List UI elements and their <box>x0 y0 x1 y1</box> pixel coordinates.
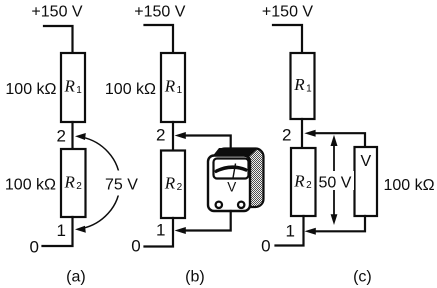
wire supply to R1 (a) <box>44 26 73 53</box>
svg-text:1: 1 <box>177 85 183 96</box>
arrow to node 1 (a) <box>75 226 86 233</box>
wire node 2 between R1 and R2 (a) <box>71 122 73 149</box>
svg-text:2: 2 <box>282 125 291 144</box>
voltmeter V rectangle (c) <box>355 147 378 216</box>
svg-text:R: R <box>293 75 305 94</box>
50 V dimension down arrowhead (c) <box>331 214 338 225</box>
voltmeter terminal right (b) <box>238 202 244 208</box>
svg-text:1: 1 <box>286 222 295 241</box>
label 75 V (a) <box>102 171 143 196</box>
arrow to node 1 (b) <box>175 227 186 234</box>
svg-text:1: 1 <box>76 85 82 96</box>
voltmeter terminal left (b) <box>216 202 222 208</box>
voltmeter scale ticks (b) <box>216 166 246 173</box>
svg-text:R: R <box>164 173 176 192</box>
svg-text:50 V: 50 V <box>319 175 352 192</box>
arrow to node 2 (a) <box>75 133 86 140</box>
resistor R2 (b) <box>161 151 185 219</box>
resistor R1 (b) <box>161 53 185 122</box>
voltmeter display window (b) <box>214 159 249 179</box>
wire R2 to 0 terminal (a) <box>43 217 73 246</box>
arrow to node 2 (c) <box>304 130 315 137</box>
svg-text:+150 V: +150 V <box>134 4 185 21</box>
svg-text:R: R <box>293 171 305 190</box>
wire R2 to 0 terminal (b) <box>145 218 174 247</box>
svg-text:R: R <box>64 172 76 191</box>
svg-text:V: V <box>227 179 236 194</box>
resistor R2 (c) <box>291 148 316 216</box>
svg-text:R: R <box>64 76 76 95</box>
svg-text:100 kΩ: 100 kΩ <box>5 81 56 98</box>
voltmeter needle (b) <box>233 164 235 178</box>
wire voltmeter to node 1 (c) <box>316 216 365 231</box>
svg-text:2: 2 <box>156 126 165 145</box>
label 50 V (c) <box>315 171 354 190</box>
svg-text:(a): (a) <box>66 268 86 285</box>
svg-text:0: 0 <box>29 238 38 257</box>
50 V dimension line (c) <box>333 143 335 216</box>
arrow to node 2 (b) <box>175 132 186 139</box>
svg-text:(b): (b) <box>185 268 205 285</box>
wire supply to R1 (b) <box>145 25 174 53</box>
svg-text:2: 2 <box>57 126 66 145</box>
50 V dimension up arrowhead (c) <box>331 135 338 146</box>
svg-text:2: 2 <box>177 182 183 193</box>
wire node 2 to voltmeter plus lead (b) <box>186 136 231 153</box>
svg-text:1: 1 <box>306 84 312 95</box>
svg-text:75 V: 75 V <box>105 177 138 194</box>
svg-text:V: V <box>360 153 371 170</box>
wire R2 to 0 terminal (c) <box>276 216 304 246</box>
voltmeter M1 rear case (b) <box>217 149 264 208</box>
svg-text:0: 0 <box>131 237 140 256</box>
svg-text:100 kΩ: 100 kΩ <box>384 177 435 194</box>
svg-text:1: 1 <box>57 221 66 240</box>
wire supply to R1 (c) <box>273 25 302 53</box>
voltmeter scale arc (b) <box>216 167 246 171</box>
wire node 2 between R1 and R2 (b) <box>172 122 174 151</box>
wire node 2 to voltmeter V (c) <box>315 133 365 147</box>
voltmeter M1 top edge shading (b) <box>212 148 259 158</box>
svg-text:(c): (c) <box>353 268 372 285</box>
wire voltmeter minus lead to node 1 (b) <box>186 211 231 231</box>
svg-text:1: 1 <box>156 221 165 240</box>
voltmeter M1 front face (b) <box>208 156 250 212</box>
svg-text:2: 2 <box>306 180 312 191</box>
arrow to node 1 (c) <box>305 228 316 235</box>
svg-text:2: 2 <box>76 181 82 192</box>
resistor R2 (a) <box>61 149 86 217</box>
75 V measurement arc (a) <box>82 137 120 228</box>
svg-text:+150 V: +150 V <box>31 4 82 21</box>
wire node 2 between R1 and R2 (c) <box>301 119 303 148</box>
svg-text:R: R <box>164 76 176 95</box>
resistor R1 (a) <box>61 53 85 122</box>
svg-text:+150 V: +150 V <box>262 4 313 21</box>
svg-text:100 kΩ: 100 kΩ <box>5 177 56 194</box>
resistor R1 (c) <box>291 53 315 119</box>
svg-text:100 kΩ: 100 kΩ <box>105 81 156 98</box>
svg-text:0: 0 <box>261 237 270 256</box>
